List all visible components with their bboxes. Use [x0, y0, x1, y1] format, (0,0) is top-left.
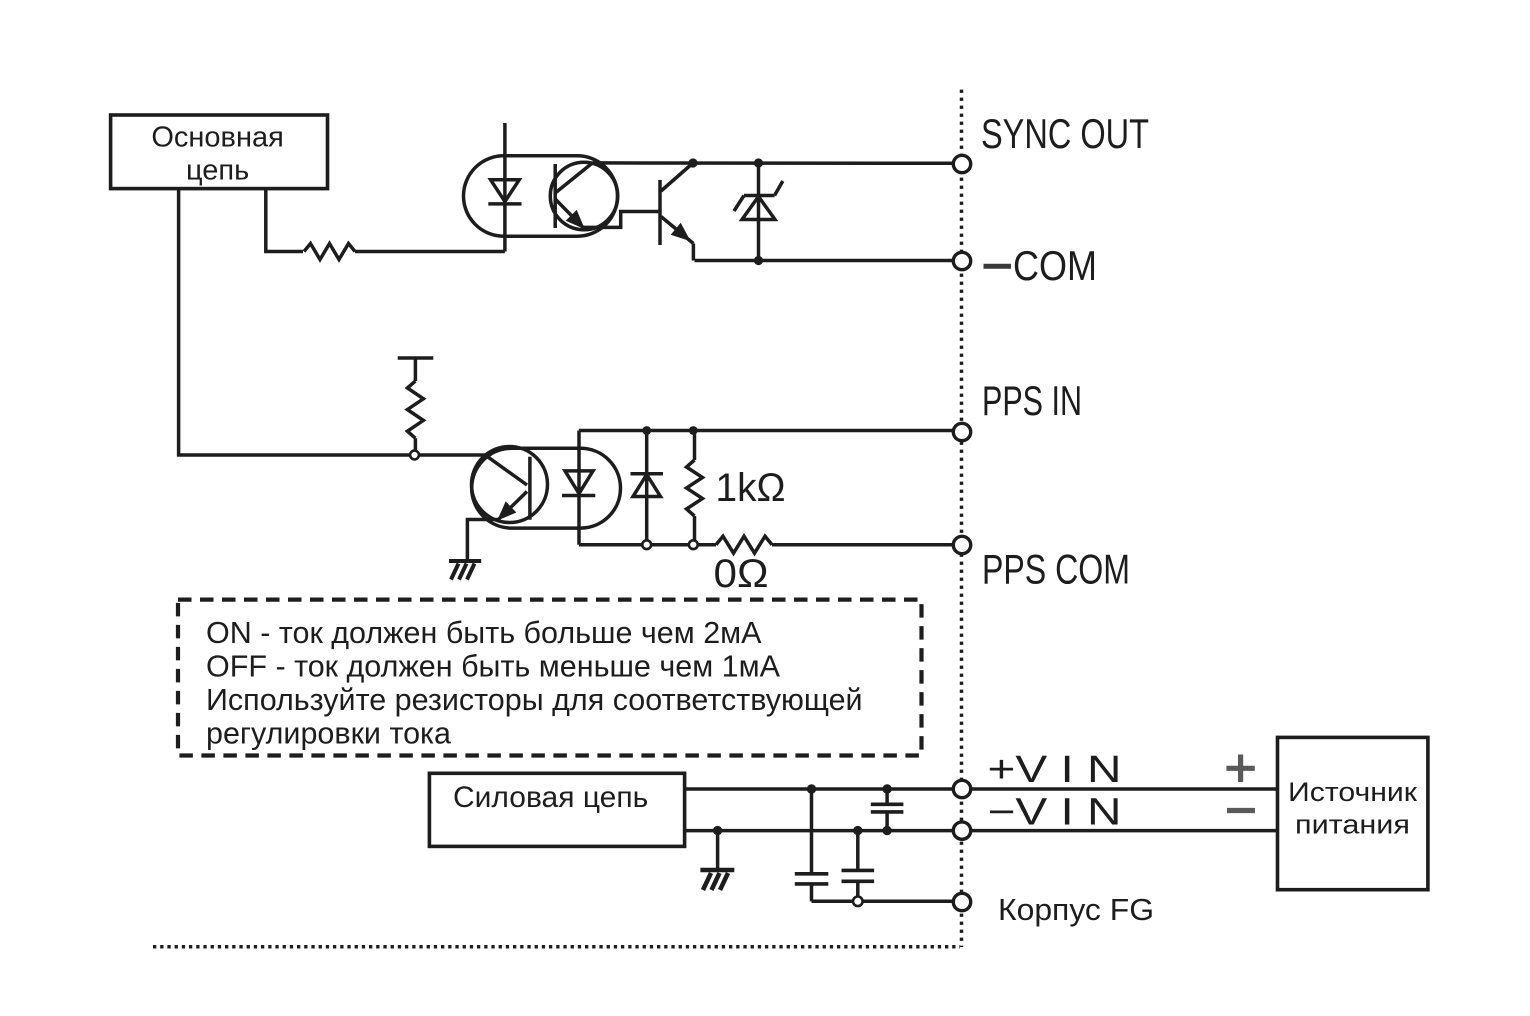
- svg-text:−V I N: −V I N: [988, 792, 1122, 834]
- svg-text:PPS IN: PPS IN: [982, 377, 1082, 424]
- svg-text:Силовая цепь: Силовая цепь: [453, 781, 648, 814]
- svg-text:Основная: Основная: [151, 122, 283, 154]
- svg-text:Корпус FG: Корпус FG: [998, 892, 1154, 927]
- svg-text:1kΩ: 1kΩ: [716, 466, 786, 510]
- svg-text:COM: COM: [1013, 242, 1097, 289]
- svg-text:Используйте резисторы для соот: Используйте резисторы для соответствующе…: [206, 683, 863, 717]
- svg-text:цепь: цепь: [186, 155, 249, 187]
- svg-text:+V I N: +V I N: [988, 749, 1122, 791]
- svg-text:SYNC OUT: SYNC OUT: [981, 110, 1149, 157]
- svg-text:0Ω: 0Ω: [714, 552, 769, 596]
- svg-text:Источник: Источник: [1288, 777, 1417, 807]
- svg-text:ON - ток должен быть больше че: ON - ток должен быть больше чем 2мА: [206, 616, 762, 650]
- svg-text:питания: питания: [1295, 809, 1410, 839]
- svg-text:PPS COM: PPS COM: [982, 546, 1130, 593]
- svg-text:регулировки тока: регулировки тока: [206, 717, 451, 751]
- svg-text:OFF - ток должен быть меньше ч: OFF - ток должен быть меньше чем 1мА: [206, 650, 781, 684]
